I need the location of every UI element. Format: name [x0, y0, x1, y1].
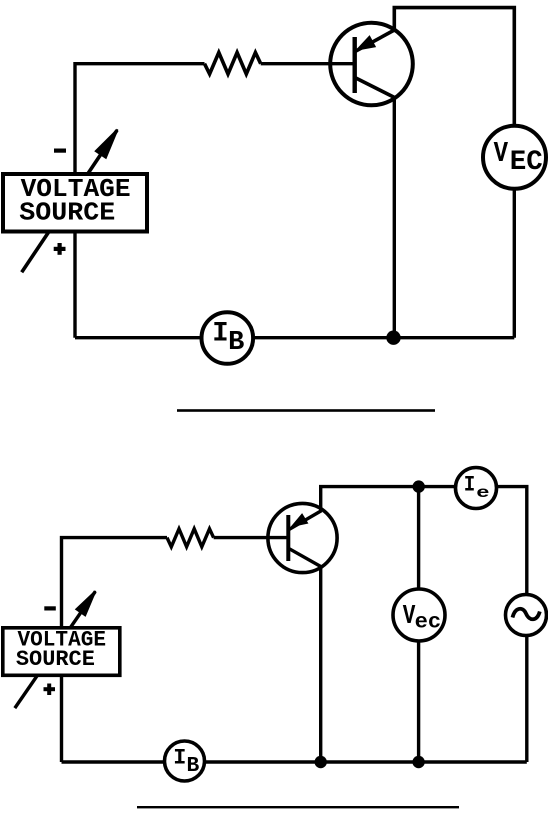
resistor (bottom circuit) — [167, 529, 214, 547]
wire emitter up and right to junction and ammeter Ie — [321, 487, 456, 511]
svg-text:ec: ec — [415, 611, 442, 635]
svg-text:B: B — [228, 328, 244, 358]
wire collector down to junction — [393, 98, 396, 338]
voltage source VS2 label — [16, 628, 106, 672]
voltage source VS2 arrow shaft (behind box) — [15, 592, 96, 709]
voltmeter VEC — [483, 126, 546, 189]
ammeter IB (top circuit) — [202, 312, 254, 364]
svg-text:SOURCE: SOURCE — [19, 198, 115, 228]
separator line 2 — [137, 806, 459, 808]
minus sign (top circuit) — [54, 149, 66, 153]
transistor Q2 (PNP, bottom circuit) — [268, 503, 337, 572]
wire voltage source VS2 down to bottom rail — [60, 675, 63, 762]
voltmeter Vec — [393, 589, 445, 641]
wire voltage source down to bottom rail — [73, 232, 76, 338]
wire resistor to transistor base — [214, 536, 287, 539]
AC source (sine generator) — [506, 595, 547, 636]
wire resistor to transistor base — [261, 62, 353, 65]
wire left top: from voltage source up and right to resistor — [75, 64, 205, 173]
transistor Q1 (PNP, top circuit) — [330, 23, 413, 106]
svg-text:e: e — [476, 484, 489, 502]
plus sign (bottom circuit) — [44, 684, 56, 696]
wire voltmeter VEC to bottom rail — [513, 189, 516, 338]
wire bottom rail left segment to ammeter IB — [75, 336, 202, 339]
wire bottom rail right segment — [205, 760, 527, 763]
wire AC source down to bottom rail — [525, 636, 528, 763]
wire left top: from voltage source up and right to resistor — [62, 538, 168, 627]
wire ammeter Ie right and down (right rail) to AC source — [497, 487, 527, 595]
wire voltmeter Vec down to bottom rail junction — [417, 641, 420, 762]
voltage source VS1 label — [19, 174, 130, 228]
voltage source VS1 arrow shaft (behind box) — [22, 130, 117, 272]
separator line 1 — [177, 409, 435, 412]
svg-text:V: V — [494, 137, 509, 170]
junction (collector at bottom rail) — [315, 756, 327, 768]
plus sign (top circuit) — [54, 243, 66, 255]
ammeter Ie — [456, 468, 497, 509]
wire bottom rail left segment to ammeter IB2 — [62, 760, 165, 763]
voltage source VS2 arrowhead — [76, 591, 95, 616]
svg-text:I: I — [212, 319, 228, 350]
ammeter IB (bottom circuit) — [165, 741, 205, 781]
junction (collector to bottom rail) — [386, 331, 400, 345]
minus sign (bottom circuit) — [44, 606, 56, 610]
junction (top rail at Vec branch) — [413, 480, 425, 492]
wire top junction down to voltmeter Vec — [417, 487, 420, 590]
voltage source VS2 box — [3, 628, 120, 676]
junction (Vec at bottom rail) — [412, 756, 424, 768]
wire emitter up, across top, down to voltmeter VEC — [394, 8, 514, 126]
wire collector down to bottom rail junction — [319, 568, 322, 763]
svg-text:I: I — [173, 746, 186, 771]
svg-text:I: I — [464, 473, 476, 498]
voltage source VS1 box — [3, 174, 147, 232]
resistor (top circuit) — [205, 53, 261, 75]
svg-text:SOURCE: SOURCE — [16, 647, 95, 672]
svg-text:B: B — [187, 754, 200, 778]
svg-text:EC: EC — [510, 147, 543, 178]
voltage source VS1 arrowhead — [96, 130, 118, 158]
wire bottom rail right segment — [253, 336, 514, 339]
